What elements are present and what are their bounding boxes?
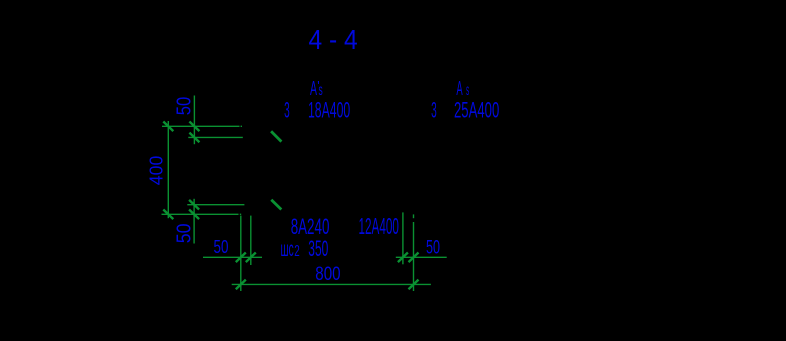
svg-text:8A240: 8A240 — [291, 214, 330, 239]
svg-text:3: 3 — [284, 97, 290, 122]
dimension line 800 (horizontal) — [232, 283, 431, 285]
svg-text:50: 50 — [426, 237, 440, 258]
svg-text:50: 50 — [174, 97, 196, 116]
svg-text:18A400: 18A400 — [308, 97, 350, 122]
dimension line 50 bottom-left horizontal — [203, 256, 262, 258]
svg-text:50: 50 — [214, 236, 229, 257]
tick at 50-top-dim upper — [189, 122, 199, 132]
leader to top rebar 3d18 — [271, 131, 281, 141]
tick at right-50 dim right end — [409, 253, 419, 263]
tick at 400-dim top — [163, 122, 173, 132]
svg-text:400: 400 — [146, 156, 167, 186]
node beam top-left corner dot — [241, 125, 242, 127]
svg-text:3: 3 — [431, 97, 437, 122]
tick at left-50 dim right end — [246, 253, 256, 263]
svg-text:4 - 4: 4 - 4 — [309, 24, 358, 55]
dimension line 400 (vertical) — [167, 121, 169, 218]
svg-text:12A400: 12A400 — [359, 213, 399, 239]
tick at 50-top-dim lower — [189, 133, 199, 143]
dimension line 50 bottom-left (vertical) — [193, 199, 195, 244]
extension line left cover 50 inner — [250, 216, 252, 265]
svg-text:шс: шс — [281, 236, 294, 261]
tick at left-50 dim left end — [236, 253, 246, 263]
extension line beam top — [162, 125, 240, 127]
tick at 400-dim bottom — [163, 210, 173, 220]
svg-text:350: 350 — [308, 236, 328, 261]
svg-text:s: s — [466, 82, 469, 99]
leader to stirrup 8A240 — [271, 200, 281, 210]
svg-text:2: 2 — [294, 243, 300, 260]
extension line right cover 50 outer — [413, 222, 415, 291]
tick at 800 dim left end — [236, 280, 246, 290]
svg-text:25A400: 25A400 — [454, 97, 499, 122]
dimension line 50 bottom-right horizontal — [396, 256, 447, 258]
extension line beam bottom — [162, 213, 239, 215]
svg-text:800: 800 — [315, 263, 340, 285]
node beam bottom-right corner dot — [413, 214, 415, 218]
node beam bottom-left corner dot — [240, 213, 241, 215]
dimension line 50 top (vertical) — [193, 96, 195, 145]
extension line top rebar row — [188, 136, 243, 138]
tick at 800 dim right end — [409, 280, 419, 290]
tick at 50-bottom-dim lower — [189, 210, 199, 220]
extension line right cover 50 inner — [402, 212, 404, 264]
tick at right-50 dim left end — [398, 253, 408, 263]
svg-text:s: s — [319, 82, 323, 99]
extension line left cover 50 outer — [240, 216, 242, 291]
svg-text:50: 50 — [173, 224, 195, 244]
extension line bottom rebar row — [187, 204, 244, 206]
tick at 50-bottom-dim upper — [189, 200, 199, 210]
